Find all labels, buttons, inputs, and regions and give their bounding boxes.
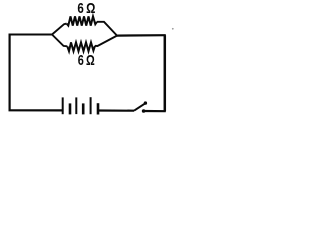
resistor R2 zigzag	[67, 42, 95, 51]
node left junction	[51, 34, 53, 36]
resistor R1 zigzag	[67, 16, 97, 25]
wire bottom right horizontal	[144, 110, 166, 112]
battery B1 plate 2 short	[69, 103, 72, 114]
speck artifact	[172, 28, 174, 30]
wire top right horizontal	[117, 34, 166, 37]
wire bottom left horizontal	[9, 109, 63, 111]
wire lead from left node up to R1	[52, 24, 67, 35]
wire battery to switch	[98, 109, 134, 111]
svg-text:6 Ω: 6 Ω	[78, 52, 95, 69]
switch S1 contact dot	[142, 109, 146, 113]
svg-text:6 Ω: 6 Ω	[77, 0, 95, 17]
battery B1 plate 4 short	[82, 103, 85, 114]
switch S1 blade	[134, 103, 145, 110]
battery B1 plate 1 long	[62, 97, 64, 114]
wire top left horizontal	[9, 34, 53, 36]
wire right vertical	[164, 35, 167, 111]
battery B1 plate 6 short	[97, 103, 100, 114]
wire lead from R2 up to right node	[95, 36, 117, 46]
wire lead from left node down to R2	[52, 35, 67, 47]
switch S1 blade tip blob	[144, 101, 147, 104]
wire lead from R1 down to right node	[97, 22, 117, 36]
battery B1 plate 5 long	[90, 97, 92, 114]
wire left vertical	[9, 35, 11, 111]
battery B1 plate 3 long	[75, 97, 77, 114]
